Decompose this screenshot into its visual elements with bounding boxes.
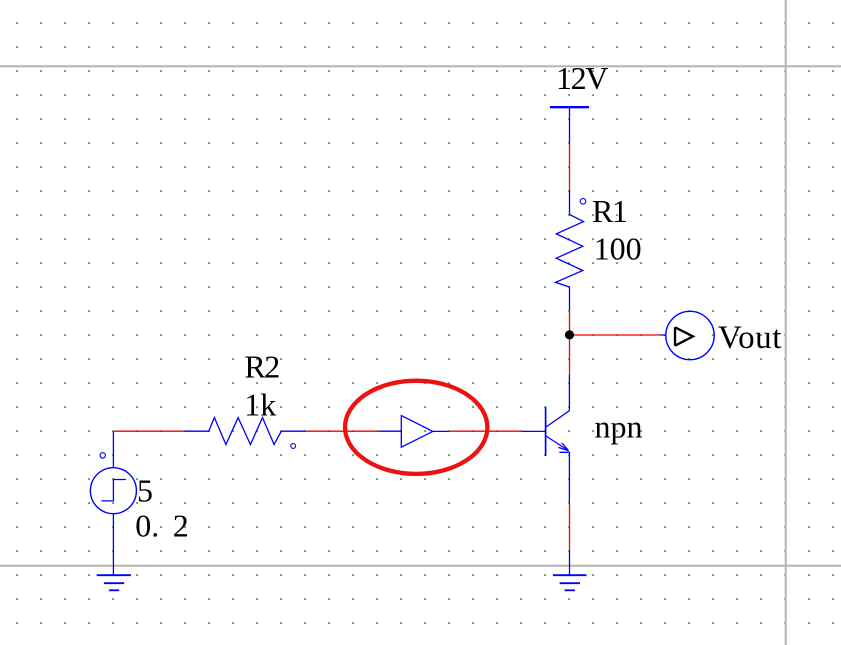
- svg-text:0. 2: 0. 2: [135, 507, 189, 543]
- svg-text:1k: 1k: [244, 387, 276, 423]
- svg-text:5: 5: [137, 472, 153, 508]
- svg-text:npn: npn: [595, 408, 643, 444]
- svg-text:Vout: Vout: [718, 320, 782, 356]
- svg-text:R2: R2: [244, 349, 279, 385]
- svg-text:100: 100: [594, 231, 642, 267]
- svg-text:R1: R1: [592, 193, 627, 229]
- svg-text:12V: 12V: [556, 60, 608, 96]
